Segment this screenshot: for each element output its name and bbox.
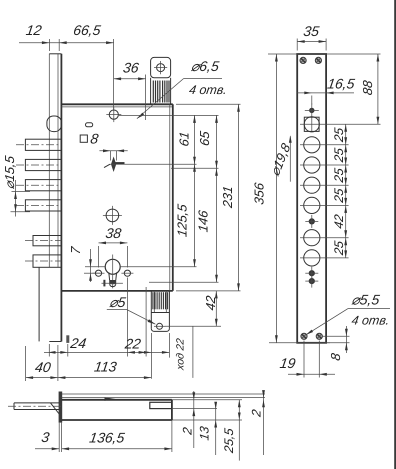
svg-text:36: 36 bbox=[122, 60, 140, 76]
svg-text:113: 113 bbox=[93, 358, 118, 374]
svg-text:12: 12 bbox=[25, 22, 43, 38]
svg-text:4 отв.: 4 отв. bbox=[188, 83, 228, 97]
svg-text:136,5: 136,5 bbox=[88, 429, 125, 445]
svg-text:356: 356 bbox=[251, 181, 266, 205]
svg-text:38: 38 bbox=[105, 225, 123, 241]
svg-text:25: 25 bbox=[332, 166, 346, 184]
svg-text:19: 19 bbox=[279, 355, 297, 371]
svg-text:231: 231 bbox=[220, 185, 235, 210]
svg-text:125,5: 125,5 bbox=[175, 202, 190, 237]
svg-text:42: 42 bbox=[203, 294, 218, 311]
svg-text:25: 25 bbox=[332, 239, 346, 257]
svg-text:⌀5: ⌀5 bbox=[108, 294, 127, 310]
svg-text:25,5: 25,5 bbox=[222, 426, 236, 454]
svg-text:40: 40 bbox=[34, 359, 52, 375]
svg-text:65: 65 bbox=[197, 129, 212, 146]
svg-text:22: 22 bbox=[123, 336, 142, 352]
svg-text:146: 146 bbox=[196, 209, 211, 233]
svg-text:25: 25 bbox=[332, 146, 346, 164]
svg-text:66,5: 66,5 bbox=[72, 22, 102, 38]
svg-text:13: 13 bbox=[198, 425, 212, 441]
svg-text:ход 22: ход 22 bbox=[174, 338, 186, 372]
svg-text:42: 42 bbox=[332, 214, 346, 230]
svg-text:25: 25 bbox=[332, 126, 346, 144]
svg-text:16,5: 16,5 bbox=[326, 75, 356, 91]
svg-text:24: 24 bbox=[69, 335, 88, 351]
svg-text:61: 61 bbox=[177, 131, 192, 148]
svg-text:⌀15,5: ⌀15,5 bbox=[2, 154, 17, 190]
svg-text:25: 25 bbox=[332, 186, 346, 204]
svg-text:88: 88 bbox=[360, 79, 375, 96]
svg-text:4 отв.: 4 отв. bbox=[351, 313, 391, 327]
svg-text:35: 35 bbox=[302, 23, 320, 39]
svg-text:⌀5,5: ⌀5,5 bbox=[350, 291, 380, 307]
svg-text:⌀6,5: ⌀6,5 bbox=[190, 58, 220, 74]
